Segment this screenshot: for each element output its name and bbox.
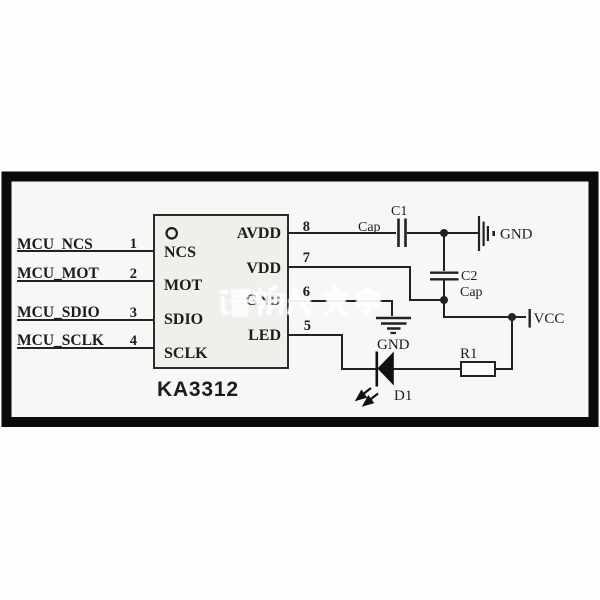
svg-text:5: 5	[304, 318, 311, 334]
wire pin 8 to C1	[288, 232, 396, 234]
svg-text:VDD: VDD	[246, 260, 281, 277]
pin 1 indicator circle	[167, 228, 177, 238]
svg-text:LED: LED	[248, 327, 281, 344]
wire MCU_SCLK to pin 4	[17, 347, 154, 349]
border frame	[7, 177, 594, 423]
wire pin 7 (VDD) to node under C2	[288, 267, 444, 300]
svg-text:MCU_SDIO: MCU_SDIO	[17, 304, 100, 321]
char 1 qing	[221, 291, 249, 315]
ground symbol pin 6	[376, 318, 411, 353]
svg-text:KA3312: KA3312	[157, 378, 239, 401]
wire MCU_NCS to pin 1	[17, 250, 154, 252]
wire R1 to LED anode	[393, 368, 461, 370]
char 5 zi	[356, 288, 380, 313]
svg-text:MCU_SCLK: MCU_SCLK	[17, 332, 104, 349]
svg-text:Cap: Cap	[460, 285, 483, 300]
svg-text:MCU_MOT: MCU_MOT	[17, 265, 99, 282]
power symbol VCC	[530, 309, 565, 328]
char 3 ru	[289, 289, 309, 313]
svg-text:VCC: VCC	[534, 311, 565, 327]
svg-text:C2: C2	[461, 269, 477, 284]
resistor R1	[460, 346, 495, 376]
svg-text:GND: GND	[500, 227, 533, 243]
capacitor C1	[391, 204, 407, 247]
svg-text:MOT: MOT	[164, 277, 203, 294]
svg-text:AVDD: AVDD	[237, 225, 281, 242]
svg-text:R1: R1	[460, 346, 478, 362]
LED D1	[377, 352, 413, 405]
LED arrows	[357, 388, 378, 405]
wire VCC node down to R1	[495, 317, 512, 369]
svg-text:3: 3	[130, 305, 137, 321]
svg-text:4: 4	[130, 333, 137, 349]
svg-text:SCLK: SCLK	[164, 345, 208, 362]
svg-text:NCS: NCS	[164, 244, 196, 261]
wire C1 to GND	[407, 232, 478, 234]
node junction VCC	[508, 313, 516, 321]
schematic inner background	[7, 177, 593, 421]
svg-text:2: 2	[130, 266, 137, 282]
wire pin 6 (GND) to ground	[288, 301, 392, 316]
char 2 shu	[255, 287, 284, 314]
svg-text:6: 6	[303, 284, 310, 300]
wire MCU_MOT to pin 2	[17, 280, 154, 282]
watermark (white chinese placeholder text)	[221, 287, 380, 315]
node junction under C2	[440, 296, 448, 304]
svg-text:Cap: Cap	[358, 220, 381, 235]
wire junction down to C2	[443, 233, 445, 271]
svg-text:GND: GND	[377, 337, 410, 353]
wire node to VCC rail	[444, 300, 526, 317]
wire pin 5 (LED) to D1 cathode	[288, 335, 376, 369]
ground symbol right	[479, 216, 533, 251]
wire erasure patches	[291, 298, 378, 304]
wire C2 down to node	[443, 280, 445, 300]
svg-text:D1: D1	[394, 388, 412, 404]
node junction C1/C2	[440, 229, 448, 237]
svg-text:7: 7	[303, 250, 310, 266]
wire MCU_SDIO to pin 3	[17, 319, 154, 321]
svg-text:SDIO: SDIO	[164, 311, 203, 328]
op-amp U1 KA3312 IC body	[154, 215, 288, 368]
char 4 wen	[323, 287, 347, 314]
svg-text:1: 1	[130, 236, 137, 252]
capacitor C2	[430, 269, 483, 300]
svg-text:C1: C1	[391, 204, 407, 219]
